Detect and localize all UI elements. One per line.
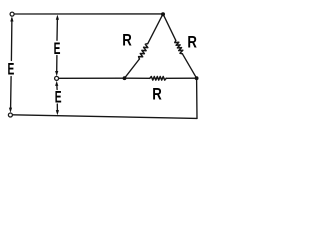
wire: delta bottom side left segment — [125, 77, 150, 79]
resistor R3 (bottom side of delta) zigzag — [150, 77, 166, 81]
wire: inner dimension shaft above bottom rail — [56, 104, 58, 111]
wire: delta right side upper segment — [163, 14, 176, 41]
terminal: open circle top-left source node — [10, 12, 14, 16]
arrowhead: up arrow under tap node — [55, 81, 58, 86]
wire: middle rail from tap node to delta left vertex — [59, 77, 125, 79]
junction dot at delta left vertex — [123, 76, 127, 80]
resistor R1 (left side of delta) zigzag — [139, 44, 148, 59]
wire: delta right side lower segment — [182, 54, 196, 78]
svg-text:R: R — [187, 33, 197, 52]
arrowhead: down arrow above bottom rail on inner dimension — [56, 110, 59, 115]
arrowhead: down arrow above tap node — [55, 71, 58, 76]
svg-text:E: E — [55, 88, 62, 106]
terminal: open circle bottom-left source node — [8, 113, 12, 117]
wire: inner dimension shaft above tap node — [56, 56, 58, 73]
arrowhead: up arrow under top rail on inner dimension — [56, 15, 59, 20]
arrowhead: down arrow above bottom-left node — [9, 108, 12, 113]
wire: top rail from source top node to delta apex — [14, 13, 163, 15]
wire: bottom rail from source bottom node to right corner — [13, 115, 198, 119]
svg-text:R: R — [152, 85, 162, 104]
resistor R2 (right side of delta) zigzag — [175, 40, 183, 53]
arrowhead: up arrow under top-left node — [10, 16, 13, 21]
wire: delta left side upper segment — [148, 14, 163, 44]
wire: inner dimension upper shaft — [56, 19, 58, 41]
svg-text:E: E — [54, 40, 61, 58]
wire: left source dimension line upper shaft — [10, 19, 13, 61]
wire: delta left side lower segment — [125, 59, 140, 78]
wire: left source dimension line lower shaft — [10, 77, 13, 108]
junction dot at delta right vertex — [195, 76, 199, 80]
svg-text:R: R — [122, 31, 132, 50]
wire: right vertical drop from delta right vertex to bottom rail — [196, 78, 198, 118]
wire: delta bottom side right segment — [166, 77, 196, 79]
wire: inner dimension shaft below tap node — [56, 85, 58, 90]
svg-text:E: E — [7, 60, 14, 78]
node: open circle tap between the two E sources — [55, 76, 59, 80]
junction dot at delta apex — [161, 12, 165, 16]
